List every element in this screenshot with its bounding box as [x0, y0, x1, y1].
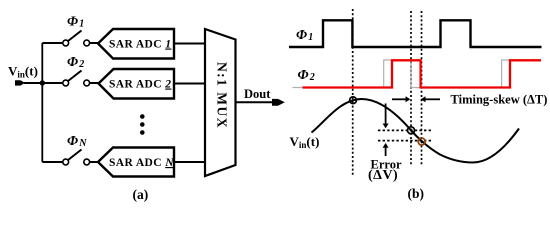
svg-text:Dout: Dout — [244, 87, 271, 101]
svg-text:(ΔV): (ΔV) — [368, 168, 398, 183]
svg-text:SAR ADC 2: SAR ADC 2 — [109, 79, 171, 91]
svg-text:N:1 MUX: N:1 MUX — [214, 62, 229, 129]
svg-text:SAR ADC N: SAR ADC N — [109, 157, 174, 169]
svg-text:(a): (a) — [133, 187, 149, 202]
svg-text:(b): (b) — [408, 186, 425, 201]
svg-text:Timing-skew (ΔT): Timing-skew (ΔT) — [451, 93, 548, 107]
svg-text:SAR ADC 1: SAR ADC 1 — [109, 39, 171, 51]
